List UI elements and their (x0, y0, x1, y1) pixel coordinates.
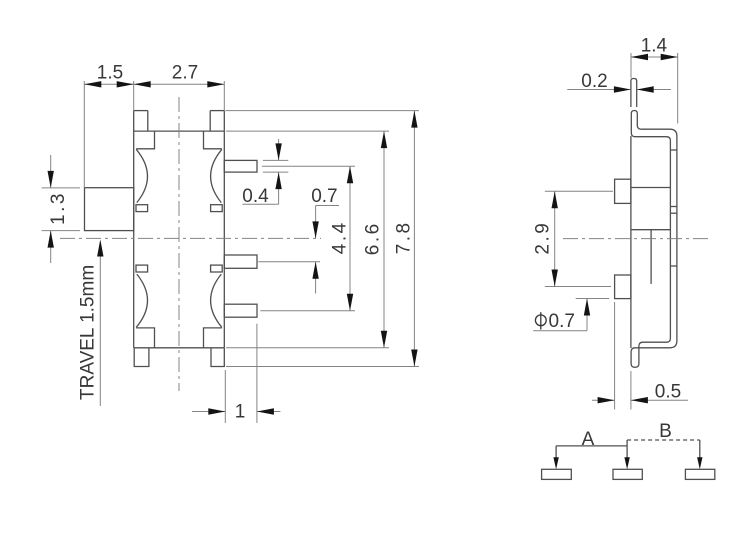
svg-text:A: A (582, 429, 595, 450)
svg-text:1: 1 (235, 402, 246, 423)
svg-text:6.6: 6.6 (363, 221, 384, 255)
svg-text:0.4: 0.4 (242, 186, 269, 207)
svg-text:TRAVEL 1.5mm: TRAVEL 1.5mm (78, 265, 99, 400)
svg-text:1.4: 1.4 (641, 36, 668, 57)
svg-text:7.8: 7.8 (394, 220, 415, 254)
svg-text:0.7: 0.7 (311, 186, 337, 207)
svg-text:4.4: 4.4 (330, 220, 351, 254)
svg-text:0.7: 0.7 (549, 311, 575, 332)
svg-text:2.7: 2.7 (172, 62, 198, 83)
svg-text:1.3: 1.3 (48, 191, 69, 225)
svg-text:1.5: 1.5 (97, 62, 123, 83)
svg-text:2.9: 2.9 (533, 221, 554, 255)
svg-text:0.5: 0.5 (655, 382, 681, 403)
svg-text:0.2: 0.2 (581, 71, 607, 92)
svg-text:B: B (659, 421, 672, 442)
